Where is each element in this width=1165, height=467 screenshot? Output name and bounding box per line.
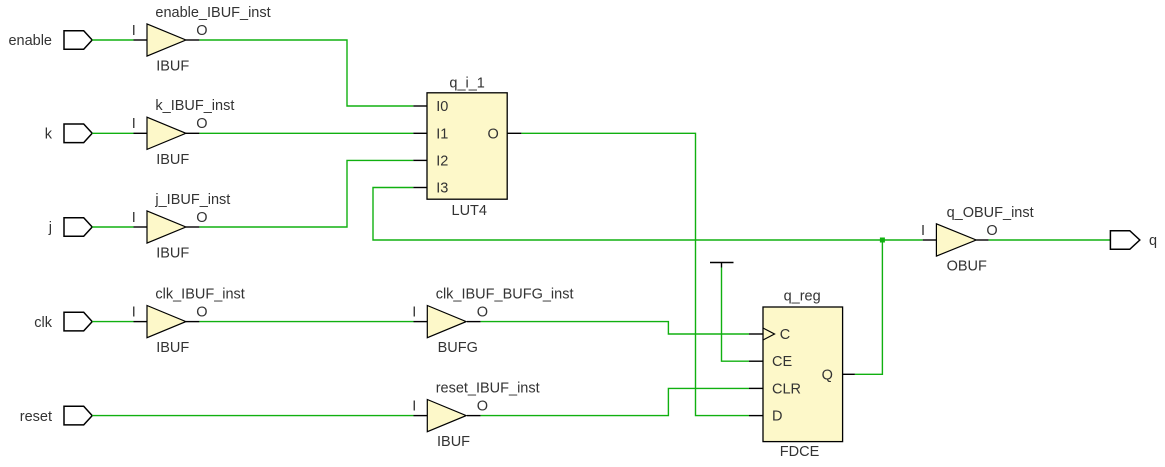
wire net q junction to OBUF input xyxy=(882,239,922,241)
svg-text:k_IBUF_inst: k_IBUF_inst xyxy=(155,98,234,114)
svg-text:D: D xyxy=(772,409,782,425)
wire k port to IBUF input xyxy=(92,132,133,134)
svg-text:IBUF: IBUF xyxy=(156,340,189,356)
svg-text:q_reg: q_reg xyxy=(784,289,821,305)
svg-text:clk_IBUF_inst: clk_IBUF_inst xyxy=(155,286,244,302)
wire OBUF O to q port xyxy=(989,239,1111,241)
svg-text:reset_IBUF_inst: reset_IBUF_inst xyxy=(436,380,540,396)
svg-text:IBUF: IBUF xyxy=(437,434,470,450)
buffer clk_IBUF_BUFG_inst (BUFG) xyxy=(412,286,573,356)
svg-text:I3: I3 xyxy=(436,181,448,197)
svg-text:reset: reset xyxy=(20,409,52,425)
buffer clk_IBUF_inst (IBUF) xyxy=(132,286,245,356)
wire enable port to IBUF input xyxy=(92,39,133,41)
wire LUT4 O to FDCE D xyxy=(521,133,749,415)
svg-text:IBUF: IBUF xyxy=(156,59,189,75)
svg-text:O: O xyxy=(196,116,207,132)
svg-text:I2: I2 xyxy=(436,153,448,169)
FDCE pin C with clock chevron xyxy=(749,333,763,335)
buffer reset_IBUF_inst (IBUF) xyxy=(412,380,539,450)
input port j xyxy=(64,218,92,237)
FDCE pin CE xyxy=(749,360,763,362)
wire j port to IBUF input xyxy=(92,226,133,228)
flip-flop q_reg (FDCE) xyxy=(763,289,843,460)
svg-text:enable_IBUF_inst: enable_IBUF_inst xyxy=(155,5,270,21)
wire enable_IBUF_O to LUT4 I0 xyxy=(199,40,413,106)
LUT q_i_1 (LUT4) xyxy=(427,76,507,220)
svg-text:I: I xyxy=(132,210,136,226)
junction net q xyxy=(880,238,885,243)
svg-text:FDCE: FDCE xyxy=(780,444,820,460)
svg-text:Q: Q xyxy=(822,367,833,383)
svg-text:O: O xyxy=(477,398,488,414)
svg-text:I: I xyxy=(132,116,136,132)
FDCE pin D xyxy=(749,415,763,417)
svg-text:clk: clk xyxy=(34,315,52,331)
svg-text:I: I xyxy=(412,304,416,320)
wire const1 to FDCE CE xyxy=(722,268,750,362)
svg-text:IBUF: IBUF xyxy=(156,246,189,262)
svg-text:I: I xyxy=(132,304,136,320)
svg-text:C: C xyxy=(780,327,790,343)
svg-text:CE: CE xyxy=(772,354,792,370)
input port reset xyxy=(64,406,92,425)
svg-text:q_i_1: q_i_1 xyxy=(449,76,484,92)
LUT4 pin I2 xyxy=(413,159,427,161)
svg-text:O: O xyxy=(986,223,997,239)
svg-text:CLR: CLR xyxy=(772,381,801,397)
svg-text:q: q xyxy=(1149,233,1157,249)
svg-text:LUT4: LUT4 xyxy=(452,203,487,219)
svg-text:I0: I0 xyxy=(436,99,448,115)
wire net q feedback to LUT4 I3 xyxy=(373,188,882,241)
LUT4 pin I1 xyxy=(413,132,427,134)
input port k xyxy=(64,124,92,143)
FDCE pin Q xyxy=(843,373,855,375)
FDCE pin CLR xyxy=(749,387,763,389)
input port clk xyxy=(64,312,92,331)
wire j_IBUF_O to LUT4 I2 xyxy=(199,160,413,227)
svg-text:I: I xyxy=(132,23,136,39)
buffer enable_IBUF_inst (IBUF) xyxy=(132,5,271,75)
svg-text:IBUF: IBUF xyxy=(156,152,189,168)
wire reset port to reset_IBUF input xyxy=(92,415,413,417)
wire FDCE Q to net q junction xyxy=(855,240,883,374)
const1 power symbol (tie-high bar) xyxy=(710,263,734,268)
svg-text:j_IBUF_inst: j_IBUF_inst xyxy=(154,192,230,208)
svg-text:j: j xyxy=(48,220,52,236)
svg-text:O: O xyxy=(196,23,207,39)
svg-text:BUFG: BUFG xyxy=(438,340,478,356)
svg-text:I: I xyxy=(412,398,416,414)
LUT4 pin O xyxy=(507,132,521,134)
LUT4 pin I3 xyxy=(413,187,427,189)
svg-text:I1: I1 xyxy=(436,126,448,142)
svg-text:O: O xyxy=(488,126,499,142)
wire clk_IBUF_O to BUFG input xyxy=(199,321,413,323)
buffer q_OBUF_inst (OBUF) xyxy=(921,205,1034,275)
svg-text:I: I xyxy=(921,223,925,239)
svg-text:OBUF: OBUF xyxy=(947,259,987,275)
wire BUFG O to FDCE C xyxy=(481,322,749,334)
svg-text:enable: enable xyxy=(8,33,52,49)
input port enable xyxy=(64,31,92,50)
svg-text:O: O xyxy=(477,304,488,320)
output port q xyxy=(1110,231,1139,250)
svg-text:q_OBUF_inst: q_OBUF_inst xyxy=(947,205,1034,221)
LUT4 pin I0 xyxy=(413,105,427,107)
buffer k_IBUF_inst (IBUF) xyxy=(132,98,235,168)
buffer j_IBUF_inst (IBUF) xyxy=(132,192,231,262)
wire clk port to IBUF input xyxy=(92,321,133,323)
svg-text:O: O xyxy=(196,304,207,320)
svg-text:O: O xyxy=(196,210,207,226)
wire k_IBUF_O to LUT4 I1 xyxy=(199,132,413,134)
svg-text:clk_IBUF_BUFG_inst: clk_IBUF_BUFG_inst xyxy=(436,286,574,302)
svg-text:k: k xyxy=(45,127,53,143)
wire reset_IBUF_O to FDCE CLR xyxy=(481,388,749,415)
